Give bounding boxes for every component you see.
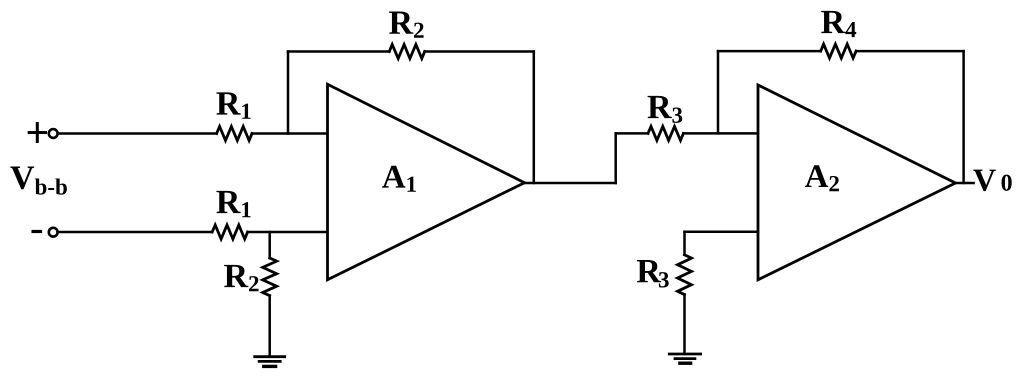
- label R3 (series): [648, 96, 683, 123]
- resistor R2 (feedback of A1): [389, 45, 424, 59]
- label R3 (shunt): [637, 260, 669, 287]
- label R2 (shunt): [224, 265, 258, 291]
- wire: feedback down to A1 output: [533, 52, 536, 184]
- label R4: [821, 11, 856, 37]
- label V0 (output): [973, 170, 1011, 191]
- label Vb-b: [10, 167, 66, 195]
- wire: feedback tap vertical (node to R2 rail): [287, 52, 290, 134]
- wire: feedback tap vertical stage 2: [717, 51, 720, 133]
- wire: node down to R3 shunt: [683, 232, 686, 255]
- wire: R2 shunt to ground: [268, 296, 271, 357]
- resistor R3 (series to A2 inverting input): [648, 126, 683, 140]
- wire: R1 bottom to A1 noninverting input: [248, 231, 328, 234]
- wire: - terminal to R1 bottom: [58, 231, 213, 234]
- wire: R3 series to A2 inverting input: [683, 132, 758, 135]
- ground (stage 2): [669, 354, 700, 363]
- label R1 (bottom): [216, 191, 250, 217]
- ground (stage 1): [255, 357, 285, 367]
- wire: feedback rail left segment: [288, 50, 389, 53]
- wire: output step up: [614, 133, 617, 183]
- op-amp A1: [328, 84, 525, 279]
- wire: node down to R2 shunt: [268, 232, 271, 258]
- wire: R4 rail left segment: [718, 50, 821, 53]
- label A1 (op-amp gain block 1): [382, 166, 416, 192]
- resistor R1 (top, series to inverting input): [217, 127, 252, 141]
- minus sign (- input polarity): [33, 230, 40, 233]
- wire: + terminal to R1 top: [58, 132, 217, 135]
- wire: R3 shunt to ground: [683, 295, 686, 354]
- label R1 (top): [216, 92, 250, 118]
- wire: R1 top to A1 inverting input: [252, 132, 328, 135]
- label A2 (op-amp gain block 2): [805, 165, 839, 191]
- op-amp A2: [758, 85, 956, 280]
- resistor R3 (shunt to ground): [678, 255, 692, 295]
- wire: R4 down to A2 output: [962, 51, 965, 183]
- terminal circle (- input): [49, 228, 58, 237]
- wire: feedback rail right segment: [425, 50, 534, 53]
- wire: A2 noninverting input: [685, 230, 759, 233]
- plus sign (+ input polarity): [29, 124, 45, 142]
- resistor R4 (feedback of A2): [821, 44, 856, 58]
- resistor R1 (bottom, series to noninverting input): [212, 225, 247, 239]
- resistor R2 (shunt to ground): [263, 258, 277, 296]
- wire: A1 output: [525, 182, 616, 185]
- terminal circle (+ input): [49, 129, 58, 138]
- wire: R4 rail right segment: [856, 50, 964, 53]
- wire: A2 output stub: [956, 182, 974, 185]
- label R2 (feedback): [389, 12, 423, 38]
- wire: step to R3 series: [616, 132, 648, 135]
